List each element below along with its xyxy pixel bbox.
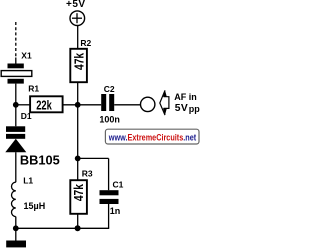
svg-text:R1: R1 xyxy=(28,84,39,94)
svg-text:47k: 47k xyxy=(72,52,87,70)
svg-text:AF in: AF in xyxy=(174,92,197,102)
svg-text:+5V: +5V xyxy=(66,0,86,10)
svg-text:R3: R3 xyxy=(82,168,93,178)
svg-text:www.ExtremeCircuits.net: www.ExtremeCircuits.net xyxy=(108,132,197,143)
svg-text:C2: C2 xyxy=(104,84,115,94)
svg-text:15µH: 15µH xyxy=(24,201,46,211)
svg-text:22k: 22k xyxy=(36,97,52,112)
svg-text:R2: R2 xyxy=(80,38,91,48)
svg-text:47k: 47k xyxy=(71,183,86,201)
svg-text:5V: 5V xyxy=(175,103,188,114)
svg-text:100n: 100n xyxy=(99,114,120,124)
svg-text:C1: C1 xyxy=(113,179,124,189)
svg-text:pp: pp xyxy=(189,104,200,114)
svg-text:L1: L1 xyxy=(23,176,33,186)
svg-text:1n: 1n xyxy=(110,206,121,216)
svg-text:D1: D1 xyxy=(21,111,32,121)
svg-text:BB105: BB105 xyxy=(20,152,60,167)
svg-text:X1: X1 xyxy=(21,51,32,61)
